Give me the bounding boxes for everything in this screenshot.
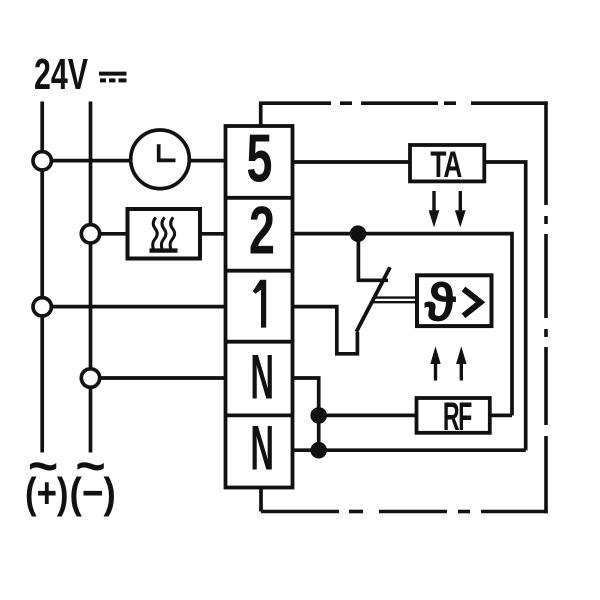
up arrow 2: [456, 346, 466, 380]
terminal label 2: [249, 193, 275, 269]
svg-text:5: 5: [246, 121, 272, 197]
wire 2 to right drop: [293, 234, 513, 416]
svg-text:ϑ: ϑ: [424, 272, 456, 332]
label RF: [443, 393, 472, 438]
label greater-than: [464, 289, 481, 316]
thermostat box B1: [417, 275, 492, 326]
switch lead from terminal 1: [293, 307, 358, 354]
svg-text:2: 2: [249, 193, 275, 269]
label TA: [430, 144, 462, 186]
wire TA to right drop: [484, 162, 525, 450]
wire N2 right: [293, 448, 526, 452]
TA box: [410, 145, 484, 181]
tilde over plus: [28, 438, 58, 496]
up arrow 1: [430, 346, 440, 380]
down arrow 2: [455, 191, 466, 227]
clock M1: [131, 130, 190, 189]
wire heater to block: [200, 232, 226, 236]
terminal circle c: [33, 298, 51, 316]
terminal circle b: [81, 225, 99, 243]
label (-): [70, 470, 116, 517]
tilde over minus: [75, 438, 105, 496]
label theta: [424, 272, 456, 332]
wire RF to right drop: [490, 414, 512, 418]
wire L- vertical: [89, 102, 93, 453]
switch S1 fixed lead: [358, 234, 388, 281]
wire to terminal 1: [51, 305, 226, 309]
down arrow 1: [429, 191, 440, 227]
wire to terminal 5: [51, 159, 131, 163]
wire block bottom to frame: [259, 488, 263, 512]
RF box: [417, 398, 490, 433]
junction dot C: [310, 442, 327, 459]
terminal circle d: [81, 369, 99, 387]
wire to heater: [100, 232, 128, 236]
mechanical link double line: [374, 298, 418, 303]
wire clock to block: [189, 159, 226, 163]
heater E1: [128, 209, 201, 259]
svg-text:(−): (−): [70, 470, 116, 517]
wire N1 right: [293, 378, 319, 450]
terminal label N1: [250, 342, 274, 412]
label 24V: [34, 51, 88, 100]
terminal label 5: [246, 121, 272, 197]
frame bottom dash-dot: [261, 510, 548, 514]
svg-text:N: N: [250, 342, 274, 412]
wire to terminal N: [100, 376, 226, 380]
terminal label N2: [250, 413, 274, 483]
junction dot B: [310, 407, 327, 424]
junction dot A: [350, 225, 367, 242]
frame right dash-dot: [544, 101, 548, 513]
frame top dash-dot: [259, 101, 548, 105]
svg-text:RF: RF: [443, 393, 472, 438]
switch blade: [356, 267, 390, 332]
wire block top to frame: [259, 103, 263, 126]
terminal circle a: [33, 152, 51, 170]
svg-text:N: N: [250, 413, 274, 483]
svg-text:(+): (+): [25, 470, 69, 517]
wire junction to RF: [319, 414, 417, 418]
wire L+ vertical: [40, 102, 44, 453]
wire 5 to TA: [293, 160, 411, 164]
label (+): [25, 470, 69, 517]
svg-text:TA: TA: [430, 144, 462, 186]
svg-text:24V: 24V: [34, 51, 88, 100]
terminal label 1: [253, 280, 266, 328]
DC symbol: [99, 74, 127, 81]
terminal block X1: [226, 126, 293, 488]
